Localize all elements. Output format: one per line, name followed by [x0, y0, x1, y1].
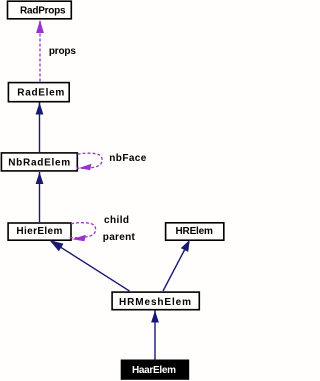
class box RadElem	[8, 83, 69, 102]
svg-text:props: props	[49, 46, 76, 57]
inheritance arrow HierElem to NbRadElem	[36, 172, 44, 222]
svg-text:NbRadElem: NbRadElem	[8, 158, 70, 169]
class box NbRadElem	[1, 153, 77, 171]
svg-text:child: child	[104, 215, 129, 226]
inheritance arrow NbRadElem to RadElem	[36, 103, 44, 153]
svg-text:HRElem: HRElem	[175, 226, 213, 237]
inheritance arrow HaarElem to HRMeshElem	[151, 311, 159, 360]
svg-text:RadProps: RadProps	[20, 6, 66, 17]
svg-text:RadElem: RadElem	[17, 88, 64, 99]
class box HierElem	[8, 223, 71, 240]
class box HRMeshElem	[112, 292, 199, 310]
usage edge RadElem to RadProps (dashed, props)	[36, 20, 44, 82]
usage self-loop HierElem child parent	[70, 223, 96, 242]
usage self-loop NbRadElem nbFace	[77, 153, 103, 170]
svg-text:parent: parent	[103, 232, 136, 243]
svg-text:HRMeshElem: HRMeshElem	[119, 297, 191, 308]
svg-text:HierElem: HierElem	[16, 226, 62, 237]
class box RadProps	[8, 1, 72, 19]
class box HRElem	[166, 223, 224, 240]
current class box HaarElem (black)	[121, 360, 189, 379]
inheritance arrow HRMeshElem to HierElem	[49, 240, 129, 291]
inheritance arrow HRMeshElem to HRElem	[163, 240, 190, 291]
svg-text:nbFace: nbFace	[109, 153, 146, 164]
svg-text:HaarElem: HaarElem	[132, 365, 176, 376]
